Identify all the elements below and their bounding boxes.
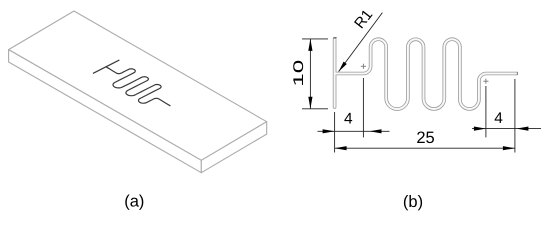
dim 4 left: arrowheads xyxy=(323,129,335,133)
strip right end edge xyxy=(516,72,518,75)
serpentine strip fill xyxy=(335,39,518,109)
dim 4 right: extension lines xyxy=(485,86,487,137)
svg-text:(a): (a) xyxy=(124,193,144,211)
dim 10: arrowheads xyxy=(308,39,312,51)
radius center mark left xyxy=(361,64,366,69)
svg-text:4: 4 xyxy=(494,110,503,127)
svg-text:4: 4 xyxy=(344,111,353,128)
dim 4 right: arrowheads xyxy=(474,127,486,131)
svg-text:(b): (b) xyxy=(403,193,423,211)
dim 10: extension lines xyxy=(302,38,328,40)
svg-text:R1: R1 xyxy=(351,6,376,32)
svg-text:25: 25 xyxy=(416,129,434,147)
lead strip outline xyxy=(333,39,337,107)
lead top cap dark tip xyxy=(334,37,336,39)
dim 10: dimension line xyxy=(309,39,311,109)
engraved serpentine (isometric) xyxy=(106,67,170,106)
svg-text:10: 10 xyxy=(290,59,306,86)
dim 4 left: dimension line xyxy=(318,130,390,132)
dim 25: dimension line xyxy=(335,147,515,149)
plate left side face xyxy=(9,50,202,173)
dim 4 right: dimension line xyxy=(472,128,541,130)
plate top face xyxy=(9,11,267,160)
radius center mark right xyxy=(483,79,488,84)
lead strip fill xyxy=(334,39,336,107)
dim 25: arrowheads xyxy=(335,146,347,150)
dim 4 left: extension lines xyxy=(334,112,336,153)
R1 leader line xyxy=(339,13,383,72)
serpentine strip outline xyxy=(335,39,518,109)
R1 leader arrowhead xyxy=(339,62,347,72)
engraved lead line (isometric) xyxy=(93,60,119,73)
plate right side face xyxy=(201,122,266,173)
